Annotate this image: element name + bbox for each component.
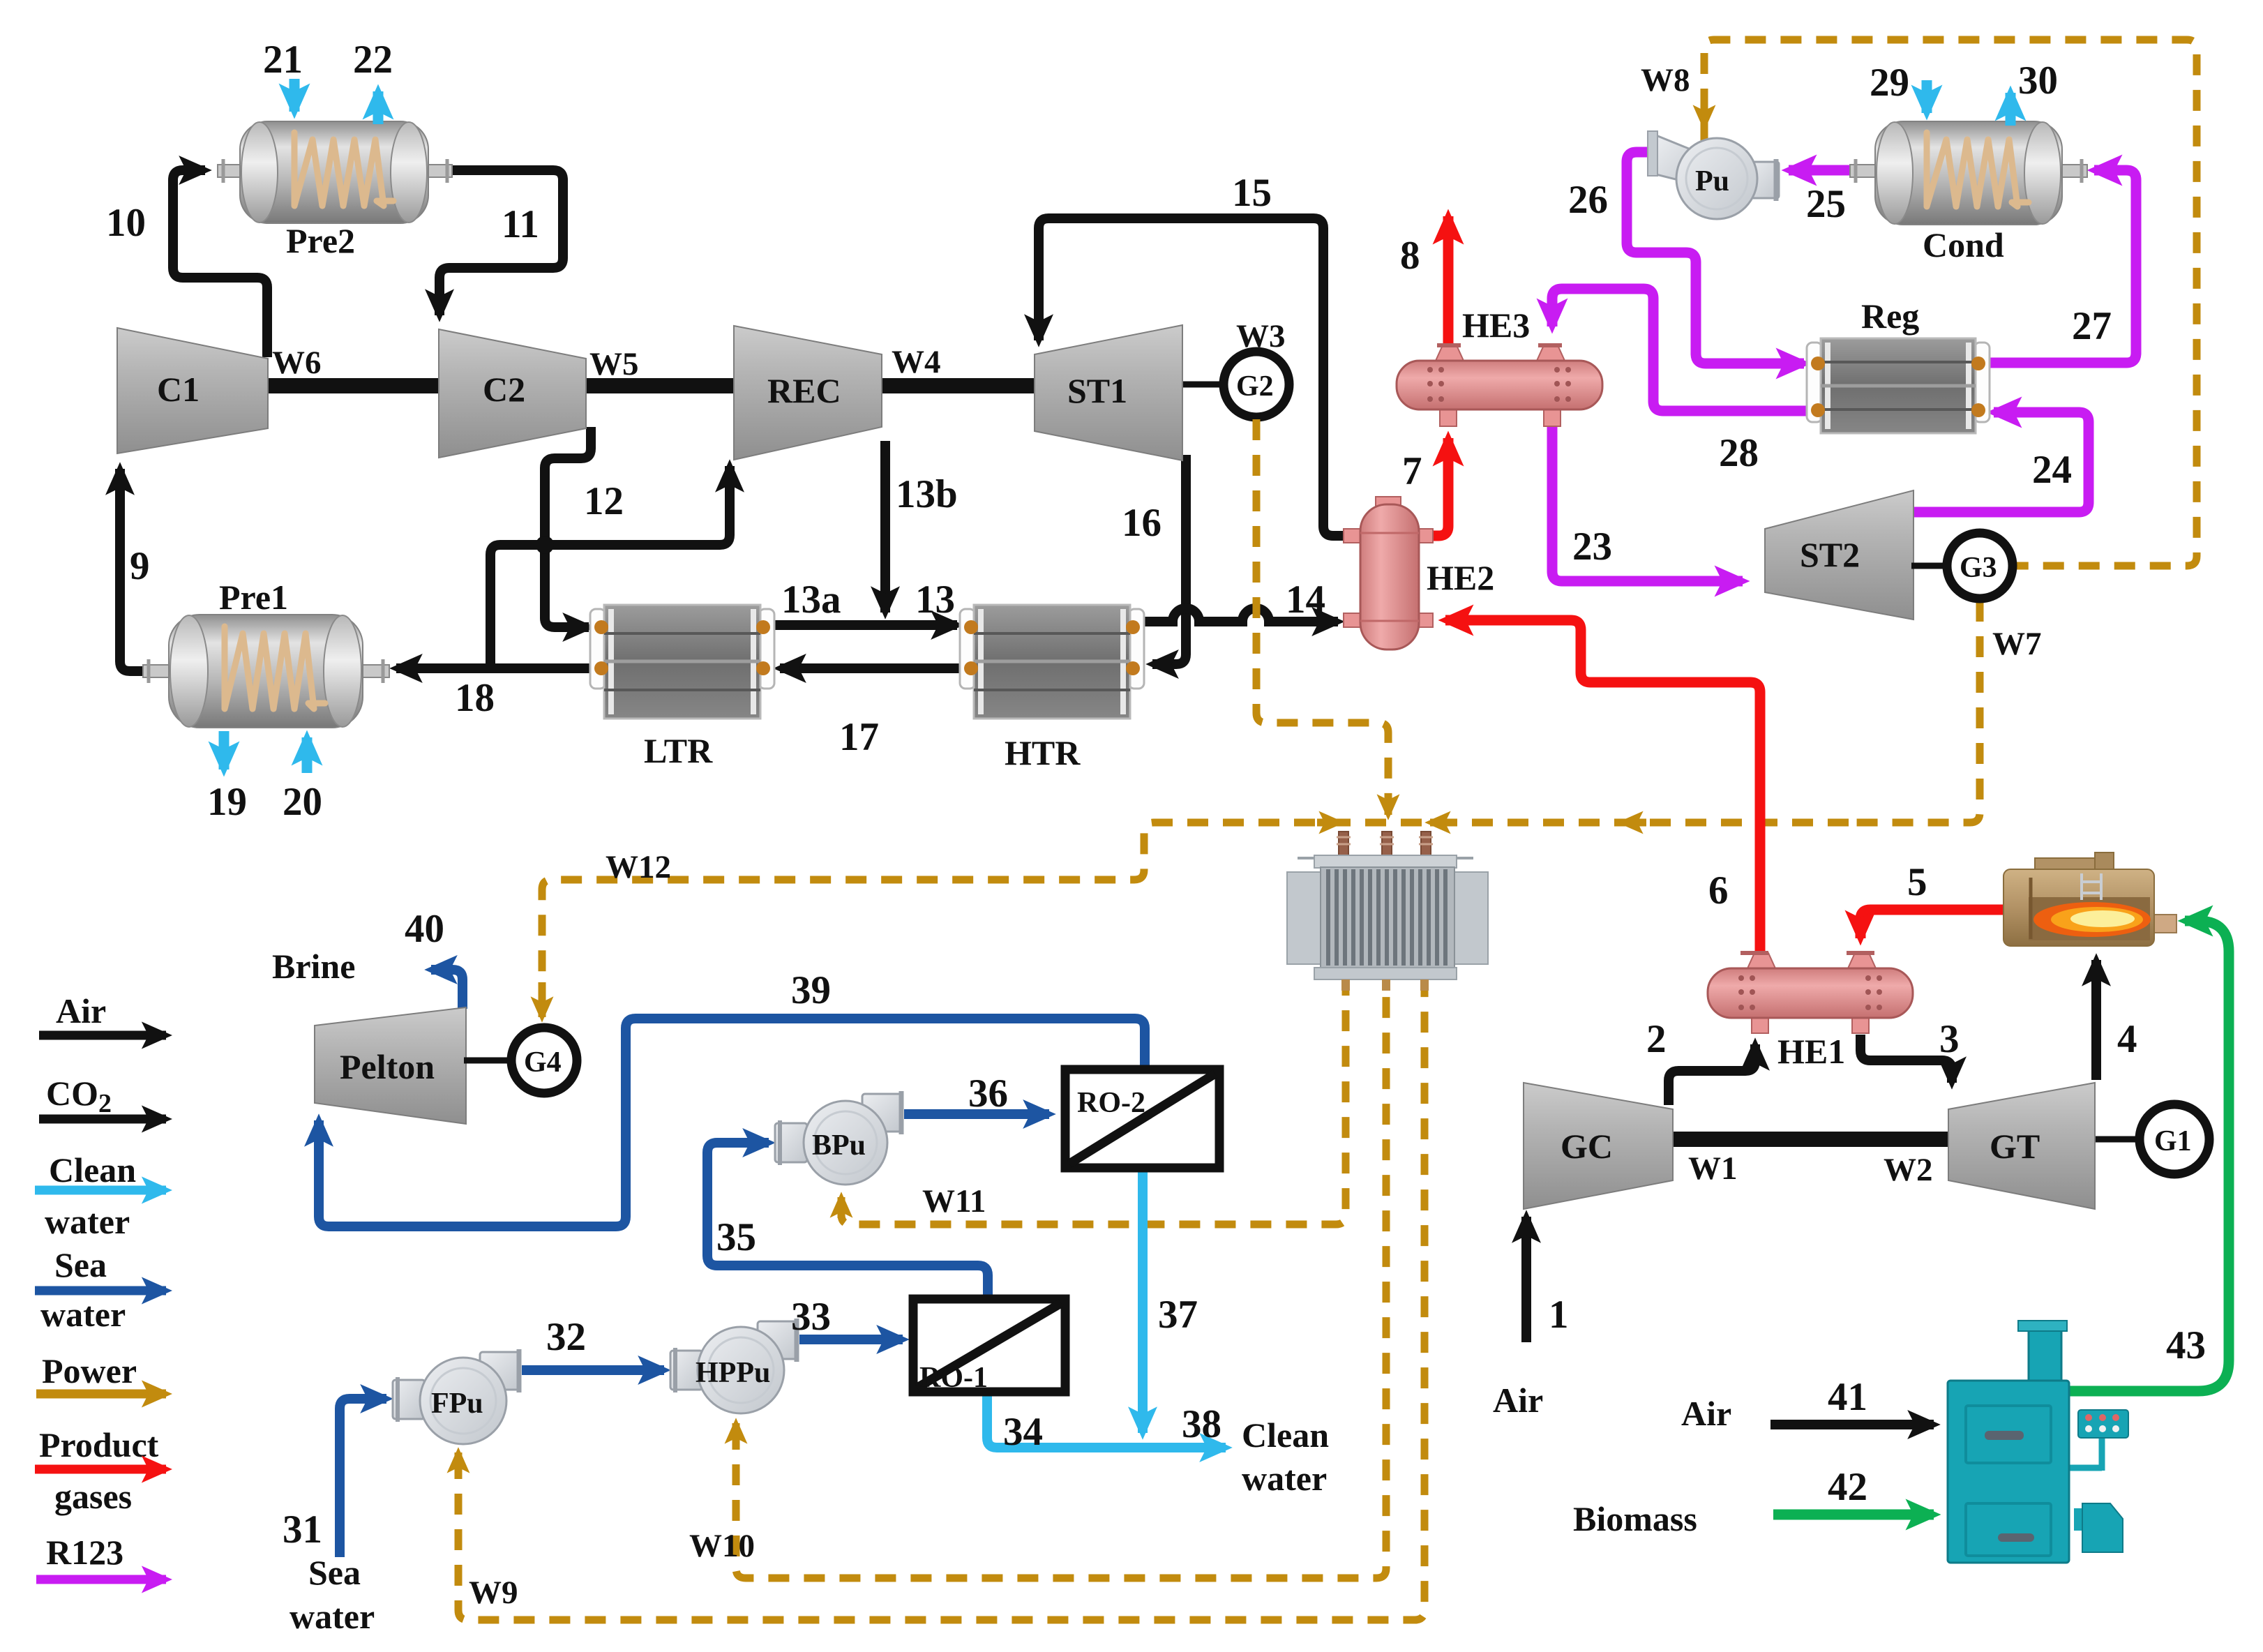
svg-text:22: 22 (353, 38, 393, 82)
heat exchanger Cond (1850, 121, 2087, 225)
svg-text:W2: W2 (1884, 1152, 1933, 1188)
svg-text:34: 34 (1003, 1410, 1043, 1454)
svg-text:G1: G1 (2154, 1125, 2192, 1157)
svg-text:25: 25 (1806, 182, 1846, 226)
svg-text:G4: G4 (524, 1046, 562, 1079)
svg-text:LTR: LTR (644, 731, 713, 770)
svg-text:24: 24 (2032, 448, 2072, 492)
wire W9 FPu to transformer pin3 (458, 991, 1424, 1620)
svg-text:Air: Air (1493, 1381, 1543, 1420)
wire 9 Pre1 to C1 (120, 469, 160, 671)
shaft W4 (879, 378, 1037, 393)
wire 13b REC down (880, 441, 890, 613)
wire 17 HTR to LTR (780, 663, 972, 673)
svg-text:W7: W7 (1992, 626, 2042, 662)
svg-text:40: 40 (405, 907, 444, 951)
svg-text:water: water (1242, 1459, 1327, 1498)
svg-text:33: 33 (791, 1295, 831, 1339)
svg-text:Brine: Brine (272, 947, 355, 986)
svg-text:Air: Air (56, 991, 106, 1030)
svg-text:R123: R123 (46, 1533, 123, 1572)
svg-text:Pelton: Pelton (340, 1047, 435, 1086)
svg-text:18: 18 (455, 676, 495, 720)
pump HPPu (670, 1319, 798, 1413)
svg-text:HPPu: HPPu (696, 1357, 770, 1389)
svg-text:Air: Air (1681, 1394, 1731, 1433)
svg-text:26: 26 (1568, 178, 1608, 222)
svg-text:REC: REC (767, 371, 841, 410)
wire 43 boiler to combustor (2063, 921, 2229, 1391)
generator G2 (1224, 352, 1289, 417)
shaft ST1-G2 (1180, 382, 1223, 388)
svg-text:Cond: Cond (1923, 225, 2004, 264)
heat exchanger LTR (590, 605, 774, 719)
svg-text:Sea: Sea (308, 1553, 361, 1592)
heat exchanger Pre1 (143, 615, 389, 728)
wire 15 HE2 to ST1 (1039, 218, 1351, 536)
wire junction to 18 line (490, 545, 545, 667)
svg-text:28: 28 (1719, 431, 1759, 475)
svg-text:FPu: FPu (431, 1388, 483, 1420)
generator G4 (511, 1028, 577, 1093)
svg-text:RO-2: RO-2 (1077, 1087, 1145, 1119)
svg-text:32: 32 (546, 1315, 586, 1359)
svg-text:C2: C2 (483, 370, 525, 409)
svg-text:14: 14 (1286, 578, 1325, 622)
svg-text:21: 21 (263, 38, 303, 82)
generator G3 (1947, 533, 2013, 599)
svg-text:13a: 13a (781, 578, 841, 622)
svg-text:HE2: HE2 (1427, 558, 1494, 597)
RO-1 membrane (913, 1299, 1065, 1394)
wire bus arrows (1317, 819, 1339, 827)
wire 16 ST1 to HTR (1152, 455, 1186, 664)
wire 32 FPu to HPPu (522, 1365, 664, 1375)
shaft GT-G1 (2093, 1136, 2140, 1143)
wire W8 dashed box (1704, 40, 2197, 566)
svg-text:W1: W1 (1688, 1150, 1738, 1187)
turbine Pelton (315, 1007, 466, 1124)
wire W8 arrow into Pu (1701, 109, 1708, 126)
svg-text:W9: W9 (469, 1575, 518, 1611)
wire 7 HE2 to HE3 (1431, 438, 1448, 536)
svg-text:BPu: BPu (812, 1129, 866, 1162)
svg-text:Pre1: Pre1 (219, 578, 288, 617)
svg-text:3: 3 (1939, 1017, 1960, 1061)
wire 3 HE1 to GT (1860, 1035, 1952, 1083)
svg-text:ST2: ST2 (1800, 535, 1860, 574)
svg-text:29: 29 (1870, 61, 1909, 105)
svg-text:Sea: Sea (54, 1245, 107, 1284)
svg-text:39: 39 (791, 968, 831, 1012)
svg-text:W3: W3 (1236, 318, 1286, 354)
svg-text:2: 2 (1646, 1017, 1667, 1061)
svg-text:W4: W4 (892, 344, 941, 380)
wire 35 RO-1 to BPu (707, 1143, 988, 1298)
wire 13a-13 LTR to HTR (765, 620, 957, 630)
wire 40 Pelton brine out (431, 970, 463, 1009)
svg-text:43: 43 (2166, 1323, 2206, 1367)
svg-text:RO-1: RO-1 (919, 1362, 988, 1394)
svg-text:GT: GT (1990, 1127, 2040, 1166)
heat exchanger Reg (1807, 338, 1990, 433)
shaft W5 (583, 378, 737, 393)
svg-text:15: 15 (1232, 171, 1272, 215)
wire 26 Pu to Reg (1627, 152, 1804, 363)
svg-text:12: 12 (584, 479, 624, 523)
svg-text:Clean: Clean (1242, 1416, 1329, 1455)
svg-text:water: water (40, 1295, 126, 1334)
svg-text:W11: W11 (922, 1183, 986, 1219)
svg-text:Power: Power (42, 1351, 137, 1390)
svg-text:1: 1 (1549, 1293, 1569, 1337)
wire 37 RO-2 down (1138, 1169, 1148, 1433)
wire 25 Cond to Pu (1789, 165, 1874, 176)
svg-text:GC: GC (1561, 1127, 1613, 1166)
compressor C2 (439, 329, 586, 458)
svg-text:38: 38 (1182, 1402, 1221, 1446)
svg-text:W12: W12 (606, 849, 671, 885)
compressor C1 (117, 328, 268, 453)
wire 11 Pre2 to C2 (439, 170, 563, 315)
svg-text:13: 13 (915, 578, 955, 622)
heat exchanger HE2 (vertical) (1344, 497, 1433, 649)
wire W3 G2 to transformer (1256, 419, 1388, 809)
svg-text:G2: G2 (1236, 370, 1274, 403)
wire 18 LTR to Pre1 (396, 663, 603, 673)
compressor GC (1524, 1083, 1673, 1209)
wire junction to REC (545, 466, 730, 545)
shaft ST2-G3 (1911, 563, 1947, 569)
svg-text:Reg: Reg (1861, 296, 1919, 336)
svg-text:42: 42 (1828, 1465, 1867, 1509)
turbine ST1 (1035, 325, 1182, 460)
svg-text:37: 37 (1158, 1293, 1198, 1337)
wire W7 G3 down (1849, 601, 1980, 823)
svg-text:13b: 13b (896, 472, 958, 516)
wire 23 HE3 to ST2 (1552, 427, 1743, 581)
wire 20 clean water in (302, 737, 313, 773)
shaft Pelton-G4 (464, 1058, 512, 1064)
wire 31 sea water to FPu (340, 1399, 386, 1557)
heat exchanger Pre2 (218, 121, 452, 223)
svg-text:HE3: HE3 (1462, 306, 1530, 345)
svg-text:4: 4 (2117, 1017, 2137, 1061)
wire W11 BPu to transformer pin1 (841, 991, 1346, 1224)
svg-text:Pu: Pu (1695, 165, 1729, 197)
compressor REC (734, 326, 882, 460)
svg-text:CO2: CO2 (46, 1074, 112, 1118)
wire 22 clean water out (373, 91, 384, 124)
wire 14 HTR to HE2 (1136, 608, 1338, 622)
wire 19 clean water out (219, 731, 230, 769)
wire 41 air to boiler (1770, 1420, 1934, 1429)
heat exchanger HE1 (horizontal) (1708, 953, 1913, 1033)
svg-text:36: 36 (968, 1072, 1008, 1116)
wire 28 Reg to HE3 (1552, 289, 1818, 411)
wire 12 C2 to junction (545, 427, 591, 627)
svg-text:10: 10 (106, 201, 146, 245)
svg-text:W10: W10 (689, 1528, 755, 1564)
svg-text:17: 17 (839, 715, 879, 759)
pump Pu (1648, 131, 1779, 219)
svg-text:Biomass: Biomass (1573, 1499, 1697, 1538)
wire 33 HPPu to RO-1 (799, 1335, 903, 1344)
svg-text:Product: Product (39, 1425, 159, 1464)
svg-text:16: 16 (1122, 501, 1161, 545)
svg-text:W6: W6 (272, 345, 322, 381)
wire 34-38 RO-1 to clean water (987, 1393, 1226, 1448)
wire 39 RO-2 to Pelton (319, 1019, 1145, 1226)
svg-text:19: 19 (207, 780, 247, 824)
turbine ST2 (1765, 490, 1914, 619)
wire 6 HE1 to HE2 (1445, 620, 1760, 967)
svg-text:27: 27 (2072, 304, 2112, 348)
svg-text:C1: C1 (157, 370, 200, 409)
svg-text:11: 11 (502, 202, 539, 246)
wire W10 HPPu to transformer pin2 (736, 991, 1386, 1578)
svg-text:23: 23 (1572, 525, 1612, 569)
pump FPu (393, 1349, 520, 1444)
node J1 (536, 536, 554, 554)
wire 27 Reg to Cond (1981, 170, 2136, 363)
transformer (1287, 832, 1488, 991)
wire 2 GC to HE1 (1669, 1044, 1755, 1105)
RO-2 membrane (1065, 1069, 1219, 1168)
svg-text:31: 31 (283, 1508, 322, 1552)
heat exchanger HE3 (horizontal) (1397, 345, 1602, 426)
svg-text:gases: gases (54, 1477, 132, 1516)
biomass boiler (1948, 1321, 2128, 1563)
svg-text:Pre2: Pre2 (286, 221, 355, 260)
wire power bus to transformer (542, 823, 1849, 991)
svg-text:G3: G3 (1960, 552, 1997, 584)
svg-text:ST1: ST1 (1067, 371, 1127, 410)
shaft W1-W2 (1670, 1132, 1951, 1147)
svg-text:5: 5 (1907, 860, 1927, 904)
wire 36 BPu to RO-2 (904, 1109, 1049, 1119)
wire 5 combustor to HE1 (1860, 910, 2005, 938)
wire 21 clean water in (290, 79, 300, 112)
svg-text:HTR: HTR (1005, 733, 1081, 772)
svg-text:20: 20 (283, 780, 322, 824)
wire 42 biomass to boiler (1773, 1510, 1934, 1520)
wire W12 into G4 (539, 982, 546, 1017)
svg-text:7: 7 (1402, 449, 1422, 493)
svg-text:water: water (290, 1597, 375, 1636)
shaft W6 (265, 378, 442, 393)
pump BPu (775, 1091, 903, 1185)
svg-text:8: 8 (1400, 234, 1420, 278)
combustor (2003, 853, 2176, 946)
wire 4 GT to combustor (2091, 960, 2101, 1080)
svg-text:W8: W8 (1641, 62, 1690, 98)
svg-text:water: water (45, 1202, 130, 1241)
svg-text:HE1: HE1 (1777, 1032, 1845, 1071)
wire 29 water in (1922, 80, 1932, 113)
svg-text:Clean: Clean (49, 1150, 136, 1189)
svg-text:41: 41 (1828, 1375, 1867, 1419)
svg-text:30: 30 (2018, 59, 2058, 103)
wire 10 C1 to Pre2 (173, 170, 267, 357)
wire 8 HE3 out (1443, 216, 1454, 352)
svg-text:35: 35 (716, 1215, 756, 1259)
svg-text:9: 9 (130, 544, 150, 588)
svg-text:6: 6 (1708, 869, 1729, 913)
turbine GT (1948, 1083, 2095, 1209)
wire 24 ST2 to Reg (1910, 412, 2089, 512)
wire 30 water out (2006, 93, 2016, 126)
wire 1 air to GC (1521, 1217, 1531, 1342)
heat exchanger HTR (960, 605, 1144, 719)
svg-text:W5: W5 (589, 346, 639, 382)
generator G1 (2140, 1104, 2209, 1174)
